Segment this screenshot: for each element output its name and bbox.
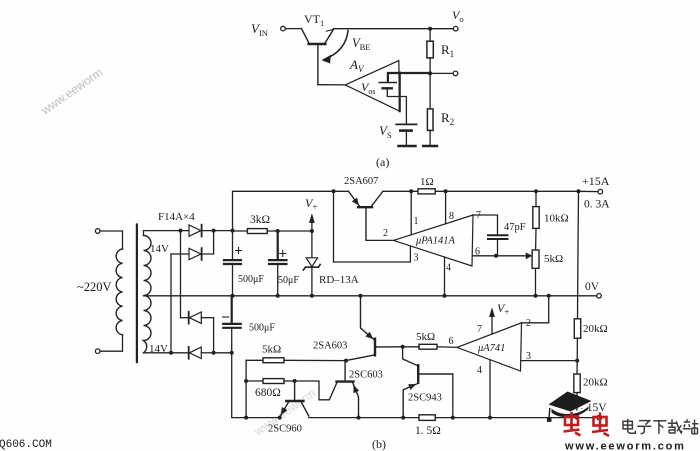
resistor 3k bbox=[233, 229, 312, 234]
svg-text:Vo: Vo bbox=[452, 8, 464, 24]
wire 0V rail bbox=[233, 295, 597, 297]
node pot bottom on 0V rail bbox=[534, 294, 538, 298]
resistor 10k bbox=[533, 191, 539, 250]
node D2 anode on bottom wire bbox=[169, 351, 173, 355]
wire 680 to 2SC603 collector bbox=[295, 381, 337, 400]
svg-text:RD–13A: RD–13A bbox=[319, 274, 359, 286]
logo bug character 1 bbox=[564, 412, 581, 436]
capacitor C3 500uF bbox=[223, 296, 241, 353]
diode D3 bbox=[181, 312, 214, 324]
svg-text:Q606.COM: Q606.COM bbox=[0, 439, 52, 451]
wire 5k left drop bbox=[245, 360, 247, 417]
node 20k bottom on -15V rail bbox=[575, 416, 579, 420]
svg-text:5kΩ: 5kΩ bbox=[544, 253, 563, 265]
svg-text:8: 8 bbox=[449, 211, 454, 222]
svg-text:47pF: 47pF bbox=[504, 222, 526, 233]
wire D2 anode to bottom end bbox=[170, 254, 172, 353]
svg-text:VT1: VT1 bbox=[304, 12, 324, 28]
potentiometer 5k bbox=[532, 250, 539, 296]
node shunt left bbox=[401, 416, 405, 420]
node pin3 junction 20k bbox=[575, 359, 579, 363]
svg-text:VS: VS bbox=[379, 123, 392, 140]
wire pin6 output bbox=[472, 255, 496, 257]
svg-text:1. 5Ω: 1. 5Ω bbox=[415, 425, 441, 437]
node 2SA603 emitter on 0V rail bbox=[359, 294, 363, 298]
svg-text:VBE: VBE bbox=[352, 36, 371, 52]
node D1-D2 cathode join bbox=[212, 229, 216, 233]
node 2SA603 base junction bbox=[401, 345, 405, 349]
svg-text:V+: V+ bbox=[305, 196, 317, 212]
node raw plus junction bbox=[231, 229, 235, 233]
svg-text:3kΩ: 3kΩ bbox=[250, 214, 270, 226]
svg-text:V+: V+ bbox=[497, 301, 509, 317]
terminal -15V bbox=[597, 415, 602, 420]
inductor T1 primary winding bbox=[116, 249, 122, 335]
wire to +15A terminal bbox=[579, 190, 598, 192]
svg-text:5kΩ: 5kΩ bbox=[262, 344, 281, 356]
svg-text:20kΩ: 20kΩ bbox=[583, 377, 608, 389]
ground under R2 bbox=[423, 145, 437, 148]
resistor 1.5ohm bbox=[419, 415, 435, 421]
svg-text:2SC603: 2SC603 bbox=[349, 370, 383, 381]
svg-text:www.eeworm.com: www.eeworm.com bbox=[564, 441, 686, 451]
wire output minus rail bbox=[309, 417, 597, 419]
wire primary top bbox=[100, 231, 123, 249]
wire negative raw bus bbox=[214, 352, 232, 354]
terminal mains bottom bbox=[95, 349, 100, 354]
svg-text:VIN: VIN bbox=[251, 21, 268, 38]
transistor 2SA607 bbox=[349, 191, 383, 240]
node D3-D4 anode join bbox=[212, 351, 216, 355]
svg-text:2SC943: 2SC943 bbox=[408, 393, 442, 404]
svg-text:14V: 14V bbox=[149, 343, 168, 355]
node zener bottom on 0V rail bbox=[310, 294, 314, 298]
node 2SC960 emitter on raw rail bbox=[278, 416, 282, 420]
wire pin4 to 0V bbox=[444, 257, 446, 296]
node shunt right bbox=[451, 416, 455, 420]
wire 2SC943 collector riser bbox=[403, 347, 418, 366]
node 5k drop on raw rail bbox=[244, 416, 248, 420]
node pin6 and 47pF bbox=[494, 254, 498, 258]
diode D1 bbox=[189, 225, 233, 237]
wire VT1 emitter to Vo rail bbox=[334, 28, 454, 30]
svg-text:7: 7 bbox=[476, 210, 481, 221]
node pin2 on 0V rail bbox=[547, 294, 551, 298]
wire raw minus left rail bbox=[232, 353, 280, 418]
battery Vs bbox=[396, 124, 416, 130]
transistor 2SC960 bbox=[280, 381, 309, 417]
transformer T1 core bbox=[136, 225, 138, 363]
node divider junction bbox=[428, 71, 432, 75]
node D1 anode tap bbox=[179, 229, 183, 233]
resistor R2 bbox=[427, 73, 433, 145]
terminal +15A bbox=[598, 189, 603, 194]
resistor 20k upper bbox=[574, 319, 580, 361]
svg-text:R1: R1 bbox=[441, 42, 454, 59]
node 680 right base junction bbox=[293, 379, 297, 383]
transistor 2SC603 bbox=[337, 361, 359, 418]
node zener top bbox=[310, 229, 314, 233]
svg-text:4: 4 bbox=[446, 263, 451, 274]
op-amp U2 uA741 bbox=[457, 323, 522, 371]
op-amp Av bbox=[345, 61, 399, 112]
svg-text:14V: 14V bbox=[150, 243, 169, 255]
node pin4 on -15V rail bbox=[488, 416, 492, 420]
svg-text:2SA603: 2SA603 bbox=[313, 341, 347, 352]
svg-text:3: 3 bbox=[526, 351, 531, 362]
wire feedback (divider to Vos) bbox=[388, 73, 430, 112]
node 3k to 50uF bbox=[276, 229, 280, 233]
node +15 rail right bbox=[577, 189, 581, 193]
logo text dianzi xiazaizhan bbox=[623, 419, 698, 434]
svg-text:4: 4 bbox=[477, 365, 482, 376]
node C1 bottom on 0V rail bbox=[231, 294, 235, 298]
terminal Vo bbox=[453, 26, 458, 31]
logo bug character 2 bbox=[592, 413, 609, 437]
svg-text:6: 6 bbox=[475, 247, 480, 258]
node pin3 tap on top rail bbox=[332, 189, 336, 193]
zener RD-13A bbox=[303, 231, 320, 296]
wire secondary center tap bbox=[144, 295, 233, 297]
V+ supply arrow 741 bbox=[490, 308, 495, 334]
wire secondary bottom end bbox=[144, 352, 189, 354]
V+ reference arrow bbox=[309, 214, 314, 231]
Vbe curved arrow bbox=[323, 31, 349, 64]
wire VT1 base to Av output bbox=[318, 84, 345, 86]
node 1ohm left bbox=[409, 189, 413, 193]
svg-text:F14A×4: F14A×4 bbox=[158, 211, 195, 223]
svg-text:~220V: ~220V bbox=[77, 280, 112, 294]
wire Vos to Vs bbox=[387, 90, 406, 124]
node 10k top on rail bbox=[534, 189, 538, 193]
terminal mains top bbox=[95, 229, 100, 234]
resistor 680 bbox=[246, 379, 295, 384]
svg-text:3: 3 bbox=[414, 253, 419, 264]
svg-text:+15A: +15A bbox=[582, 174, 610, 188]
capacitor 47pF bbox=[488, 235, 508, 256]
wire D3 anode down to D4 anode bbox=[213, 318, 215, 353]
terminal feedback tap bbox=[453, 71, 458, 76]
svg-text:AV: AV bbox=[349, 57, 365, 74]
svg-text:www.eeworm: www.eeworm bbox=[38, 65, 105, 118]
svg-text:R2: R2 bbox=[441, 110, 454, 127]
svg-text:6: 6 bbox=[449, 336, 454, 347]
wire pin8 offset bbox=[445, 191, 447, 224]
svg-text:680Ω: 680Ω bbox=[255, 387, 281, 399]
wire pin4 to -15V rail bbox=[489, 360, 491, 418]
wire 2SC943 base to shunt right bbox=[452, 374, 454, 418]
svg-text:10kΩ: 10kΩ bbox=[544, 213, 569, 225]
diode D4 bbox=[189, 347, 214, 359]
wire 2SA607 collector to 1ohm bbox=[383, 190, 418, 192]
wire secondary top end bbox=[144, 231, 189, 236]
wire primary bottom bbox=[100, 335, 123, 351]
capacitor C1 500uF bbox=[224, 248, 242, 265]
resistor R1 bbox=[427, 29, 433, 74]
logo graduation cap bbox=[547, 392, 592, 422]
node top-right (a) bbox=[428, 27, 432, 31]
transistor 2SA603 bbox=[346, 296, 403, 361]
wire pin2 input bbox=[366, 239, 393, 241]
transistor VT1 bbox=[302, 29, 334, 85]
svg-text:0. 3A: 0. 3A bbox=[584, 199, 610, 211]
wiper arrow to pot bbox=[496, 253, 532, 259]
resistor 1ohm bbox=[418, 189, 579, 194]
node raw minus corner bbox=[230, 351, 234, 355]
wire pin2 to 0V bbox=[522, 296, 549, 323]
wire right sense column bbox=[578, 191, 579, 318]
inductor T1 secondary winding bbox=[144, 236, 152, 353]
svg-text:7: 7 bbox=[477, 324, 482, 335]
svg-text:1: 1 bbox=[414, 216, 419, 227]
terminal 0V bbox=[597, 294, 602, 299]
svg-text:(a): (a) bbox=[376, 155, 389, 169]
svg-text:0V: 0V bbox=[585, 281, 600, 293]
svg-text:2: 2 bbox=[383, 228, 388, 239]
svg-text:Vos: Vos bbox=[361, 80, 375, 96]
svg-text:500μF: 500μF bbox=[238, 274, 264, 285]
svg-text:μPA141A: μPA141A bbox=[415, 236, 455, 247]
wire Vin to VT1 collector bbox=[286, 28, 302, 30]
svg-text:(b): (b) bbox=[372, 437, 386, 451]
node 2SC603 emitter on rail bbox=[357, 416, 361, 420]
wire raw plus riser bbox=[233, 191, 349, 295]
wire pin3 to divider bbox=[521, 360, 577, 362]
faint scan watermark bbox=[38, 65, 318, 439]
svg-text:2SA607: 2SA607 bbox=[344, 176, 378, 187]
capacitor C2 50uF bbox=[269, 231, 287, 296]
svg-text:5kΩ: 5kΩ bbox=[416, 331, 435, 343]
terminal Vin bbox=[281, 26, 286, 31]
node 1ohm right bbox=[444, 189, 448, 193]
node 680 left bbox=[244, 379, 248, 383]
wire pin3 to raw rail bbox=[334, 191, 411, 262]
op-amp U1 uPA141A bbox=[394, 215, 474, 266]
resistor 5k horizontal bbox=[246, 358, 346, 363]
wire D3 cathode up to top end bbox=[180, 231, 182, 318]
node pin4 on 0V rail bbox=[443, 294, 447, 298]
transistor 2SC943 bbox=[403, 365, 453, 417]
svg-text:20kΩ: 20kΩ bbox=[583, 323, 608, 335]
wire Vs to ground bbox=[405, 132, 407, 146]
svg-text:500μF: 500μF bbox=[249, 323, 275, 334]
node driver collector junction bbox=[344, 359, 348, 363]
resistor 20k lower bbox=[574, 361, 580, 418]
resistor 5k drive bbox=[403, 344, 457, 349]
svg-text:2: 2 bbox=[526, 318, 531, 329]
diode D2 bbox=[171, 231, 214, 260]
battery Vos bbox=[379, 83, 396, 89]
wire pin7 bbox=[473, 215, 498, 235]
node C2 bottom on 0V rail bbox=[276, 294, 280, 298]
wire pin1 offset bbox=[410, 191, 412, 235]
svg-text:50μF: 50μF bbox=[278, 275, 299, 286]
svg-text:μA741: μA741 bbox=[477, 343, 505, 354]
svg-text:1Ω: 1Ω bbox=[420, 176, 434, 188]
ground under Vs bbox=[399, 145, 416, 148]
wire divider to terminal bbox=[430, 72, 453, 74]
